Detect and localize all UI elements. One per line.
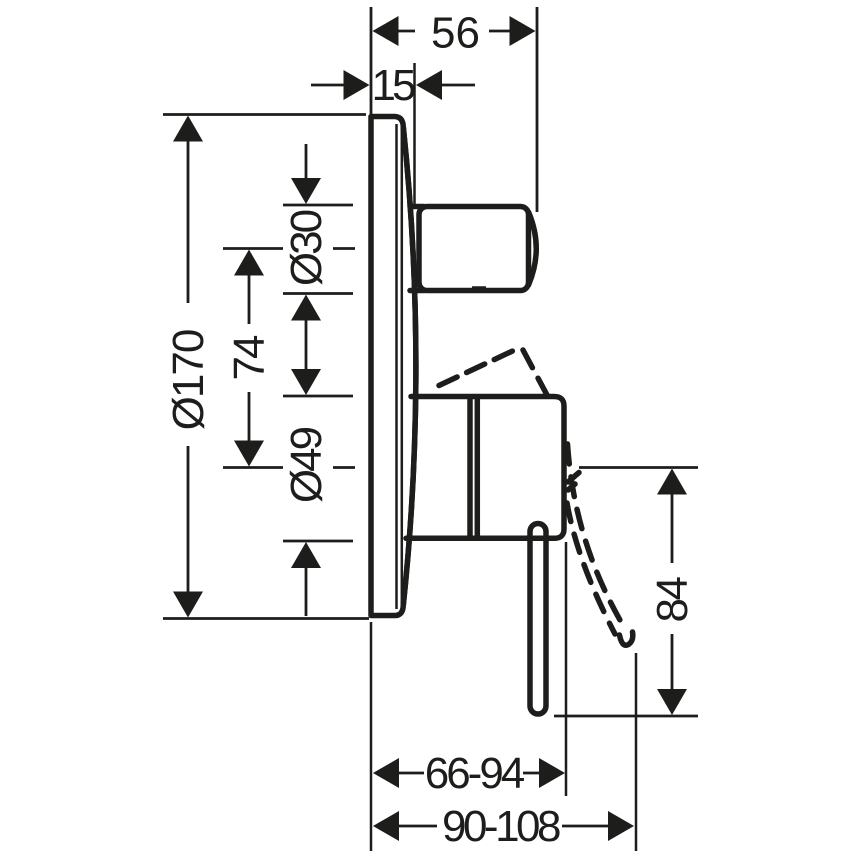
valve connector bottom (410, 288, 424, 294)
extension tick hub bottom (283, 540, 353, 543)
extension line dashed lever bottom (635, 653, 638, 851)
extension line hub axis right (579, 466, 698, 469)
handle body hub (406, 397, 564, 539)
dimension 15 tail right (441, 84, 475, 87)
dashed lever cap dash b (568, 484, 575, 490)
extension tick valve bottom (283, 292, 353, 295)
dimension 15 arrow right (416, 70, 442, 100)
dimension 90-108 line (398, 825, 609, 828)
svg-text:Ø30: Ø30 (282, 210, 331, 286)
dimension 90-108 arrow right (608, 811, 634, 841)
dimension d170 arrow top (173, 116, 203, 142)
dimension 84 arrow bottom (657, 689, 687, 715)
extension line plate top (163, 113, 366, 116)
dashed lever down left line (567, 503, 615, 634)
svg-text:90-108: 90-108 (442, 802, 560, 851)
valve cap bulge (529, 212, 537, 285)
plate inner rim line 2 (401, 126, 404, 607)
dimension d170 arrow bottom (173, 592, 203, 618)
dashed lever up tip line (523, 350, 547, 395)
dimension 15 tail left (311, 84, 345, 87)
valve connector top (410, 204, 424, 210)
dimension d30 arrow bottom (291, 295, 321, 321)
dashed lever end hook (620, 632, 633, 645)
svg-text:Ø170: Ø170 (164, 330, 213, 430)
dimension 56 arrow left (373, 16, 399, 46)
dashed lever down right line (568, 444, 625, 627)
dimension 90-108 arrow left (373, 811, 399, 841)
escutcheon plate outline (371, 117, 416, 616)
extension line wall bottom (370, 622, 373, 851)
dimension 66-94 arrow right (539, 758, 565, 788)
dimension d170 line (187, 140, 190, 593)
plate front arc redraw over hub (403, 127, 416, 605)
extension line plate front top (413, 63, 416, 208)
extension tick hub top (283, 395, 353, 398)
dimension 56 line (398, 30, 511, 33)
svg-text:66-94: 66-94 (425, 749, 525, 798)
shared tail between d30 and d49 (305, 318, 308, 372)
hub divider line right (475, 399, 481, 536)
center tick valve axis (223, 247, 283, 250)
center dash valve axis (333, 247, 355, 250)
dimension 74 line (248, 273, 251, 444)
dimension 66-94 arrow left (373, 758, 399, 788)
dimension d30 arrow top (291, 178, 321, 204)
center tick hub axis (223, 466, 283, 469)
dimension d49 arrow bottom (291, 542, 321, 568)
dimension d49 arrow top (291, 369, 321, 395)
extension line hub right bottom (565, 542, 568, 796)
lever handle solid (530, 524, 546, 715)
extension tick valve top (283, 204, 353, 207)
valve stem notch (472, 286, 486, 289)
dimension 84 arrow top (657, 469, 687, 495)
extension line valve right (536, 7, 539, 212)
svg-text:Ø49: Ø49 (282, 427, 331, 503)
dashed lever cap dash a (568, 473, 579, 483)
svg-text:74: 74 (225, 335, 274, 380)
dashed lever up position line (439, 347, 521, 386)
extension line wall top (370, 7, 373, 114)
dimension 84 line (671, 492, 674, 692)
center dash hub axis (333, 466, 355, 469)
svg-text:56: 56 (431, 9, 480, 58)
dimension 74 arrow bottom (234, 441, 264, 467)
extension line plate bottom (163, 617, 369, 620)
dimension 66-94 line (398, 772, 540, 775)
plate inner rim line 1 (395, 124, 398, 609)
hub divider line left (467, 399, 473, 536)
dimension 74 arrow top (234, 250, 264, 276)
dimension d49 tail bottom (305, 564, 308, 616)
svg-text:84: 84 (648, 577, 697, 623)
dimension d30 tail top (305, 144, 308, 180)
valve body rect (419, 207, 529, 291)
svg-text:15: 15 (372, 61, 415, 110)
extension line lever bottom (554, 715, 698, 718)
dimension 56 arrow right (510, 16, 536, 46)
dimension 15 arrow left (344, 70, 370, 100)
